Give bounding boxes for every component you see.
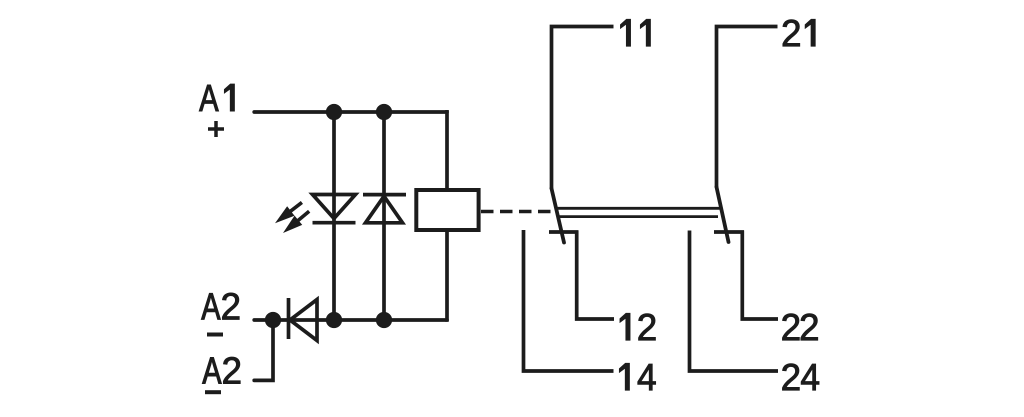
- minus sign 2: [205, 390, 221, 394]
- terminal label A1: [199, 84, 234, 111]
- terminal label A2 second: [202, 357, 240, 384]
- wire terminal 11: [552, 27, 614, 190]
- terminal label 11: [621, 19, 651, 46]
- wire diode branch: [382, 112, 386, 320]
- mechanical link dashed wire: [481, 210, 551, 214]
- wire A2 second branch: [254, 320, 273, 380]
- junction dot A2 feed: [265, 312, 281, 328]
- LED emission arrow 2: [279, 207, 313, 238]
- contact armature 2: [717, 187, 729, 242]
- freewheeling diode: [363, 195, 406, 223]
- reverse polarity diode: [289, 298, 318, 341]
- relay coil K1: [416, 190, 478, 230]
- junction dot diode bottom: [376, 312, 392, 328]
- wire terminal 22: [742, 231, 778, 320]
- LED emission arrow 1: [271, 198, 305, 228]
- wire coil top branch: [445, 110, 449, 189]
- terminal label A2: [201, 293, 239, 320]
- wire terminal 14: [524, 230, 614, 371]
- terminal label 22: [783, 314, 818, 341]
- wire terminal 24: [690, 231, 779, 372]
- contact 1 NC bar: [549, 230, 578, 234]
- linkage double line lower: [559, 215, 719, 218]
- junction dot A1-diode: [376, 104, 392, 120]
- wire A2 bottom rail: [254, 318, 447, 322]
- minus sign 1: [207, 333, 223, 337]
- junction dot A1-LED: [326, 104, 342, 120]
- contact armature 1: [552, 189, 565, 243]
- wire terminal 12: [577, 231, 614, 320]
- terminal label 14: [619, 363, 655, 390]
- contact 2 NC bar: [714, 230, 744, 234]
- plus sign: [208, 121, 224, 137]
- terminal label 12: [620, 313, 655, 340]
- junction dot LED bottom: [326, 312, 342, 328]
- wire coil bottom branch: [445, 231, 449, 322]
- wire LED branch: [332, 112, 336, 320]
- terminal label 21: [783, 19, 815, 46]
- terminal label 24: [783, 364, 820, 391]
- linkage double line upper: [557, 207, 720, 210]
- LED indicator: [313, 195, 356, 223]
- wire terminal 21: [717, 27, 778, 188]
- wire A1 rail: [254, 110, 447, 114]
